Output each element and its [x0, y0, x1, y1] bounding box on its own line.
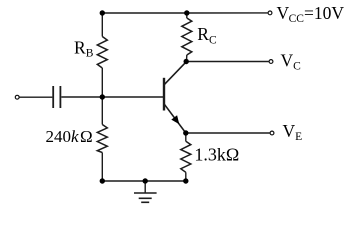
wire RC to collector node	[186, 55, 188, 62]
ground bar 1	[134, 192, 157, 194]
input terminal	[15, 95, 19, 99]
transistor Q1 collector lead	[164, 62, 186, 85]
svg-text:VE: VE	[283, 121, 303, 143]
wire input lead	[20, 96, 53, 98]
svg-text:RB: RB	[74, 37, 94, 59]
transistor Q1 emitter arrowhead	[171, 115, 179, 124]
svg-text:240k Ω: 240k Ω	[46, 127, 93, 146]
wire base node down	[101, 97, 103, 125]
wire Ve lead	[186, 132, 270, 134]
wire emitter node down	[185, 133, 187, 141]
wire left branch upper stub	[101, 13, 103, 37]
wire 1.3k to bottom rail	[185, 172, 187, 181]
ground bar 3	[141, 201, 149, 203]
node bottom-right junction	[183, 178, 188, 183]
ground stub	[144, 181, 146, 193]
ground bar 2	[139, 197, 152, 199]
wire RC upper stub	[186, 13, 188, 18]
resistor 240k	[97, 125, 107, 153]
capacitor C1 right plate	[59, 86, 61, 108]
svg-text:RC: RC	[197, 24, 217, 46]
resistor RC	[182, 18, 192, 55]
terminal Vcc	[268, 11, 272, 15]
transistor Q1 emitter lead	[164, 104, 186, 133]
resistor RB	[97, 37, 107, 69]
wire bottom rail	[102, 180, 186, 182]
wire Vcc lead	[187, 12, 268, 14]
capacitor C1 left plate	[52, 86, 54, 108]
svg-text:VCC=10V: VCC=10V	[277, 3, 345, 25]
node collector junction	[184, 59, 189, 64]
transistor Q1 base bar	[163, 78, 165, 111]
wire Vc lead	[186, 61, 269, 63]
wire capacitor to base node	[61, 96, 102, 98]
node top-left junction	[100, 10, 105, 15]
node base junction	[100, 94, 105, 99]
node bottom-left junction	[100, 178, 105, 183]
resistor 1.3k	[181, 141, 191, 172]
node ground junction	[143, 178, 148, 183]
wire base	[102, 96, 164, 98]
wire top rail	[102, 12, 187, 14]
wire 240k to bottom rail	[101, 153, 103, 182]
svg-text:VC: VC	[281, 50, 302, 72]
svg-text:1.3kΩ: 1.3kΩ	[194, 145, 239, 165]
wire RB to base node	[101, 68, 103, 97]
terminal Ve	[270, 131, 274, 135]
node top-right junction	[184, 10, 189, 15]
node emitter junction	[183, 130, 188, 135]
terminal Vc	[269, 60, 273, 64]
